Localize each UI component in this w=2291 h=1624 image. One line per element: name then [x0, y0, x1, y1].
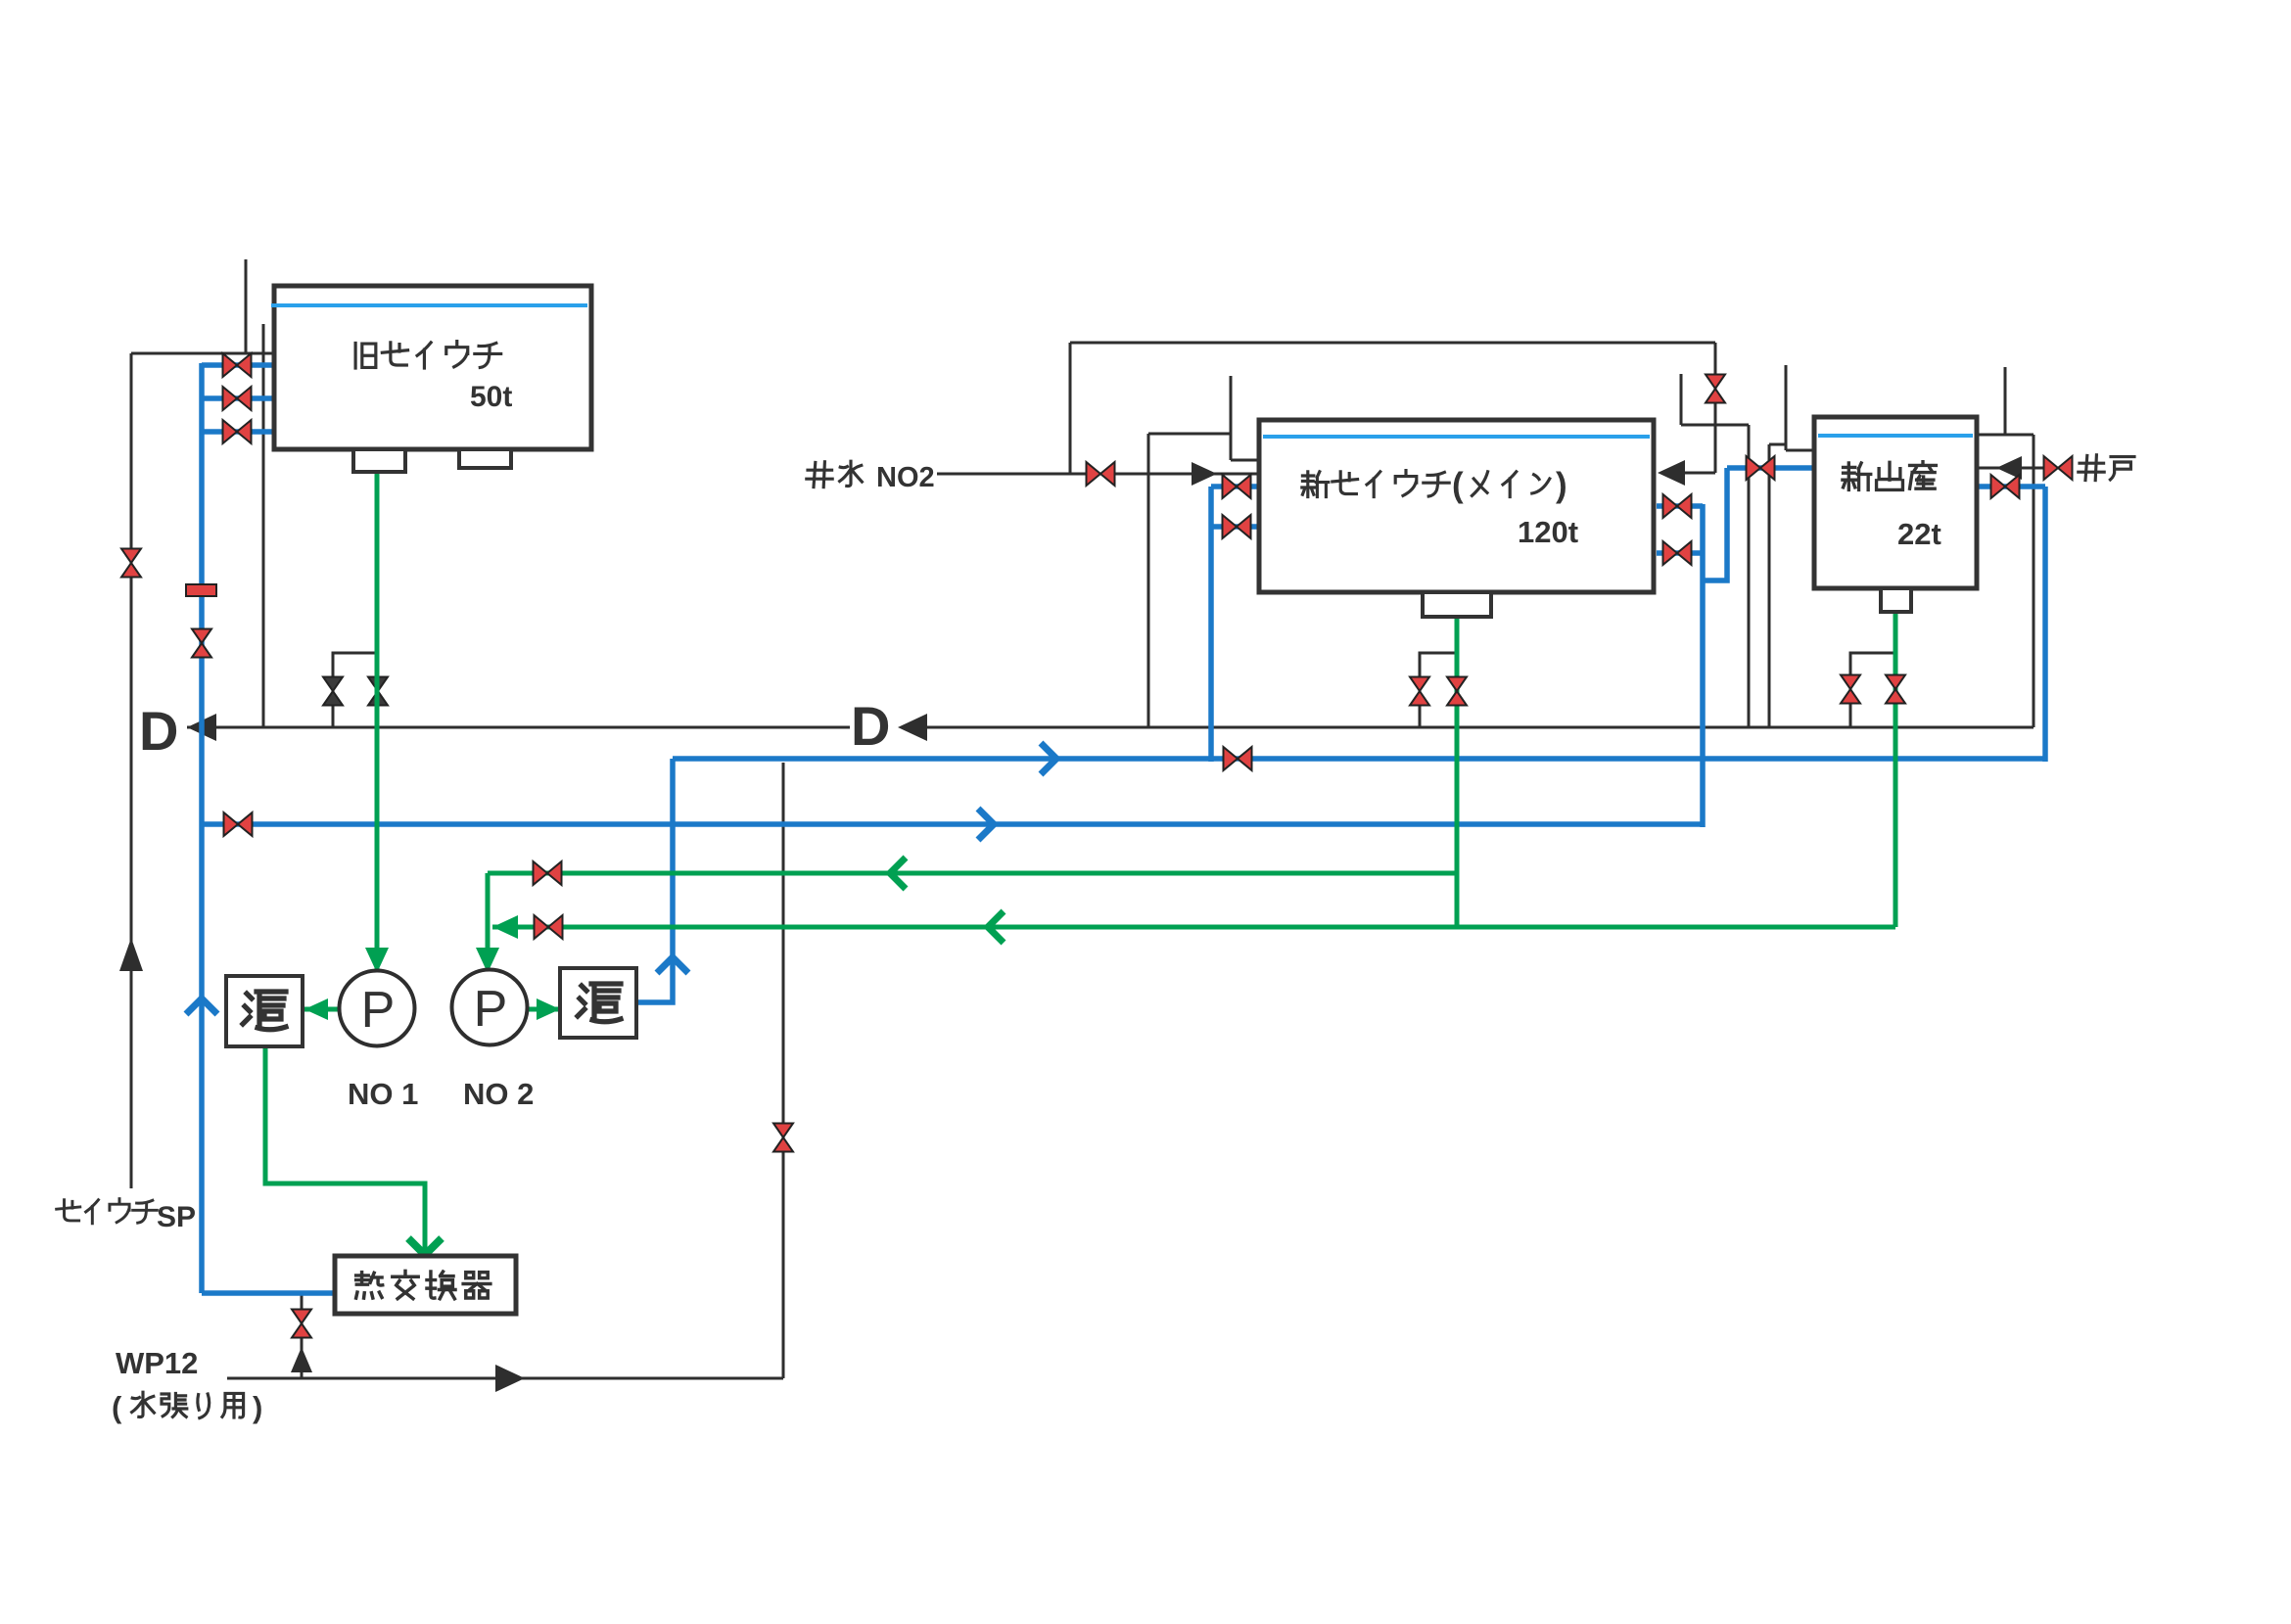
flow arrow right on line1 — [1041, 743, 1056, 774]
pipe green return G2 — [492, 925, 1895, 930]
arrow into heat exchanger — [408, 1238, 442, 1255]
wire overflow top header above tanks — [1070, 342, 1715, 345]
wire drain header D left segment — [187, 726, 850, 729]
valve on T2 drain bypass — [1410, 677, 1429, 706]
pipe blue tank T3 right outlet — [1979, 484, 2045, 489]
valve on ido line — [2044, 456, 2073, 480]
svg-text:): ) — [253, 1390, 262, 1424]
svg-text:P: P — [474, 981, 508, 1038]
tank T3 shin-shussan 22t — [1814, 417, 1977, 588]
valve on G2 — [535, 915, 563, 939]
valve on T2 left row1 — [1223, 475, 1251, 498]
pipe green filter1 to heat exchanger — [265, 1046, 425, 1252]
arrow into filter2 — [537, 998, 560, 1020]
tank T1 outlet left — [353, 449, 405, 472]
label seiuchi SP — [57, 1200, 80, 1221]
pipe blue filter2 riser — [636, 759, 673, 1002]
wire top header left drop — [1069, 343, 1072, 474]
svg-text:D: D — [139, 700, 178, 762]
svg-text:P: P — [361, 982, 396, 1039]
wire top header right drop — [1714, 343, 1717, 473]
wire WP12 riser to blue line1 — [782, 763, 785, 1378]
filter F2 box — [560, 968, 636, 1038]
valve on line1 — [1224, 747, 1252, 770]
svg-text:(: ( — [1452, 466, 1464, 504]
pipe green tank T3 drain drop — [1894, 612, 1898, 927]
label filter F1 ro — [243, 992, 286, 1030]
valve black on T1 bypass — [323, 677, 343, 706]
label tank T3 shin-shussan — [1843, 463, 1871, 490]
pipe blue to heat exchanger — [202, 1290, 337, 1296]
valve on T3 right outlet — [1991, 475, 2020, 498]
valve on T2 right rowA — [1663, 494, 1692, 518]
flow arrow up on filter2 riser — [657, 957, 688, 973]
svg-text:): ) — [1556, 466, 1567, 504]
svg-text:NO 1: NO 1 — [348, 1077, 418, 1111]
flow arrow right on line2 — [978, 809, 994, 840]
wire tank T3 overflow drop to drain — [2033, 435, 2035, 727]
wire drain header D right segment — [927, 726, 2034, 729]
arrow into tank T2 right — [1658, 460, 1685, 486]
arrow G2 into pump riser — [492, 915, 518, 939]
pipe blue tank T3 fill drop — [1703, 468, 1727, 580]
tank T3 outlet — [1881, 588, 1911, 612]
valve on T1 branch row2 — [223, 387, 252, 410]
valve on T2 right rowB — [1663, 541, 1692, 565]
valve on WP12 branch — [292, 1310, 311, 1338]
label ido well — [2079, 455, 2104, 481]
wire standpipe left of tank T3 — [1785, 365, 1788, 450]
wire WP12 fill header — [227, 1377, 783, 1380]
valve on T1 branch row3 — [223, 420, 252, 443]
valve on T2 left row2 — [1223, 515, 1251, 538]
pipe blue T1 branch row1 — [202, 362, 274, 368]
svg-text:D: D — [851, 695, 890, 757]
svg-text:120t: 120t — [1518, 515, 1578, 549]
wire feed stub into tank T2 right — [1685, 472, 1715, 475]
pipe blue T2 left branch row1 — [1211, 484, 1259, 489]
wire ido well line into tank T3 — [1979, 467, 2052, 470]
pipe green pump2 to filter2 — [527, 1007, 558, 1012]
arrow drain D middle — [898, 714, 927, 741]
pump P2 circle — [452, 970, 528, 1045]
pipe blue return header line1 — [673, 756, 2045, 762]
arrow into pump P1 — [365, 948, 389, 973]
valve black on T1 green drain — [368, 677, 388, 706]
flow arrow left on G2 — [988, 911, 1004, 943]
wire drain drop 1 between tanks — [1748, 425, 1751, 727]
label filter F2 ro — [578, 984, 621, 1022]
svg-text:WP12: WP12 — [116, 1346, 198, 1380]
pipe blue supply header line2 — [202, 821, 1703, 827]
wire isui-NO2 fill line to tank T2 — [937, 473, 1259, 476]
svg-text:NO 2: NO 2 — [463, 1077, 534, 1111]
label tank T2 shin-seiuchi — [1302, 472, 1329, 497]
valve on T3 drain bypass — [1841, 675, 1860, 704]
valve on main riser — [192, 629, 211, 658]
wire standpipe stub into tank T3 — [1786, 449, 1814, 452]
arrow into tank T3 right — [1996, 456, 2022, 480]
wire tank T2 drain bypass — [1420, 653, 1457, 727]
flow arrow left on G1 — [890, 858, 906, 889]
wire tank T3 drain bypass — [1850, 653, 1895, 727]
wire tank T1 drain bypass — [333, 653, 378, 727]
svg-text:22t: 22t — [1897, 517, 1941, 551]
tank T2 outlet — [1423, 592, 1491, 617]
wire black vertical seiuchi-SP line — [130, 353, 133, 1188]
wire vent riser junction to drain — [1147, 434, 1150, 727]
heat exchanger box — [335, 1256, 516, 1314]
pump P1 circle — [340, 971, 415, 1046]
wire jog to drain drop 2 — [1769, 443, 1786, 446]
label tank T1 kyu-seiuchi — [355, 343, 376, 368]
pipe green pump1 to filter1 — [304, 1007, 340, 1012]
water level line tank T1 — [271, 303, 587, 307]
wire vent standpipe above tank T2 — [1230, 376, 1233, 460]
svg-text:50t: 50t — [470, 381, 512, 413]
pipe green tank T1 drain to pump1 — [375, 472, 380, 969]
arrow into filter1 — [304, 998, 328, 1020]
pipe blue T2 right branch rowB — [1657, 550, 1703, 556]
valve V-SP on seiuchi-SP line — [121, 549, 141, 578]
pipe green G1 drop to pump2 — [486, 873, 491, 969]
valve on top header right drop — [1706, 375, 1725, 403]
pipe blue main riser — [199, 363, 205, 1293]
valve on G1 — [534, 861, 562, 885]
filter F1 box — [226, 976, 303, 1046]
valve on T1 branch row1 — [223, 353, 252, 377]
arrow drain D left — [187, 714, 216, 741]
pipe blue right downcomer — [2042, 487, 2048, 762]
pipe blue T1 branch row2 — [202, 395, 274, 401]
wire vent stub into tank T2 — [1231, 459, 1259, 462]
valve on isui-NO2 line — [1087, 462, 1115, 486]
wire drain drop 2 — [1768, 444, 1771, 727]
tank T2 shin-seiuchi main 120t — [1259, 420, 1654, 592]
wire black overflow line tank T1 to drain — [262, 324, 265, 727]
wire vent jog horizontal — [1148, 433, 1231, 436]
pipe blue tank T3 fill line — [1727, 465, 1814, 471]
water level line tank T2 — [1263, 435, 1650, 439]
arrow up on WP12 branch — [291, 1347, 312, 1372]
valve on T3 fill line — [1747, 456, 1775, 480]
wire standpipe between tanks — [1680, 374, 1683, 425]
pipe blue T2 left branch row2 — [1211, 524, 1259, 530]
wire standpipe right of tank T3 — [2004, 367, 2007, 435]
tank T1 outlet right — [459, 449, 511, 468]
pipe blue tank T2 right riser — [1700, 504, 1706, 827]
pipe blue T1 branch row3 — [202, 429, 274, 435]
valve closed gate marker on main riser — [186, 584, 216, 596]
valve on T3 drain — [1886, 675, 1905, 704]
pipe green tank T2 drain drop — [1455, 617, 1460, 927]
wire cross header to drain drop — [1681, 424, 1749, 427]
pipe green return G1 — [488, 871, 1457, 876]
valve on WP12 riser — [773, 1124, 793, 1152]
valve on T2 drain — [1447, 677, 1467, 706]
svg-text:NO2: NO2 — [876, 462, 935, 493]
wire black stub above tank T1 — [245, 259, 248, 353]
arrow into tank T2 left — [1192, 462, 1217, 486]
flow arrow up on seiuchi-SP line — [119, 938, 143, 971]
tank T1 kyu-seiuchi 50t — [274, 286, 591, 449]
water level line tank T3 — [1818, 434, 1973, 438]
label heat exchanger — [356, 1273, 383, 1298]
valve on line2 — [224, 812, 253, 836]
wire black supply line to tank T1 top-left — [131, 352, 274, 355]
pipe blue tank T2 left riser — [1208, 487, 1214, 762]
arrow right on WP12 header — [495, 1365, 525, 1392]
wire tank T3 overflow header — [1979, 434, 2034, 437]
label isui NO2 — [807, 462, 832, 487]
svg-text:(: ( — [112, 1390, 122, 1424]
flow arrow up on main riser — [186, 998, 217, 1014]
svg-text:SP: SP — [157, 1201, 196, 1233]
arrow into pump P2 — [476, 948, 499, 973]
pipe blue T2 right branch rowA — [1657, 503, 1703, 509]
wire WP12 branch to heat exchanger feed — [301, 1293, 304, 1378]
